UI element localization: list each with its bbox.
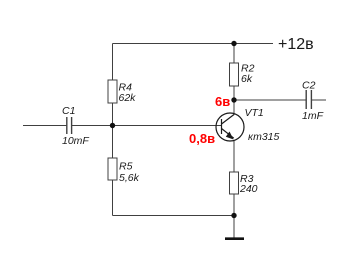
wire R4 to input node xyxy=(112,103,114,126)
ground xyxy=(225,237,244,240)
svg-text:C1: C1 xyxy=(62,105,75,117)
svg-text:R5: R5 xyxy=(119,161,133,173)
svg-text:+12в: +12в xyxy=(278,36,314,53)
svg-text:1mF: 1mF xyxy=(302,110,324,122)
svg-text:6k: 6k xyxy=(241,73,253,85)
wire C1 to base xyxy=(72,125,222,127)
transistor Q1 VT1 xyxy=(216,113,244,141)
junction node rail xyxy=(231,41,236,46)
wire input node to R5 xyxy=(112,126,114,159)
wire R5 to bottom corner xyxy=(112,180,114,216)
svg-text:кт315: кт315 xyxy=(248,131,280,143)
svg-text:C2: C2 xyxy=(302,80,316,92)
resistor R2 xyxy=(230,63,239,86)
transistor emitter arrow xyxy=(226,132,234,140)
wire rail node to R2 xyxy=(233,44,235,64)
capacitor C1 xyxy=(67,117,72,134)
wire collector node to C2 xyxy=(234,99,306,101)
wire C2 output xyxy=(312,99,327,101)
svg-text:5,6k: 5,6k xyxy=(119,172,140,184)
wire R2 to collector node xyxy=(233,86,235,100)
junction node emitter bottom xyxy=(231,213,236,218)
wire emitter to R3 xyxy=(233,141,235,173)
svg-text:10mF: 10mF xyxy=(62,135,89,147)
resistor R4 xyxy=(108,80,117,103)
wire input left segment xyxy=(23,125,67,127)
svg-text:6в: 6в xyxy=(215,94,230,109)
capacitor C2 xyxy=(306,90,311,109)
svg-text:VT1: VT1 xyxy=(245,107,264,119)
wire collector node to transistor xyxy=(233,100,235,115)
junction node input base xyxy=(110,123,115,128)
svg-text:0,8в: 0,8в xyxy=(189,131,215,146)
svg-text:240: 240 xyxy=(239,183,258,195)
svg-text:62k: 62k xyxy=(119,92,137,104)
resistor R5 xyxy=(108,158,117,180)
wire emitter node to ground xyxy=(233,216,235,239)
wire top rail horizontal xyxy=(113,43,274,45)
wire R3 to emitter node xyxy=(233,194,235,216)
junction node collector xyxy=(231,97,236,102)
resistor R3 xyxy=(230,172,239,194)
wire left column top (rail to R4) xyxy=(112,44,114,81)
wire bottom horizontal (R5 to emitter node) xyxy=(113,215,235,217)
